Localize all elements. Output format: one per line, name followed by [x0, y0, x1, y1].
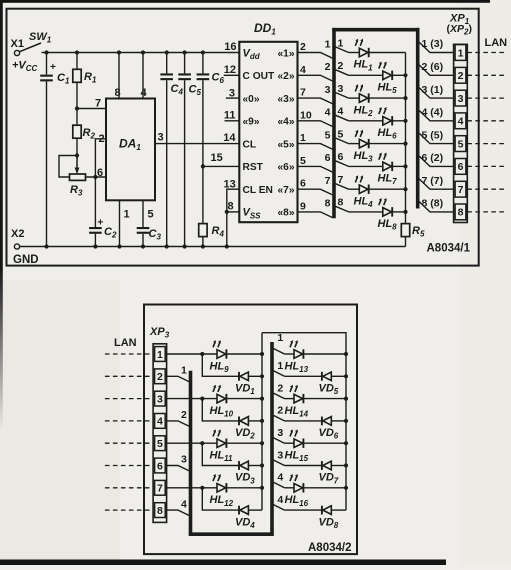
group bus left — [332, 28, 336, 218]
svg-text:6: 6 — [325, 152, 331, 164]
LED HL6 — [349, 120, 383, 122]
svg-text:4: 4 — [277, 494, 283, 506]
svg-text:7: 7 — [338, 174, 344, 186]
svg-text:7: 7 — [95, 98, 101, 110]
svg-text:2: 2 — [338, 60, 344, 72]
svg-text:4: 4 — [458, 116, 464, 128]
XP1 pin 6 — [455, 159, 466, 175]
capacitor C6 — [201, 50, 205, 54]
wire DD1 pin 7 to bus, line 3 — [298, 98, 333, 104]
diode VD2 — [202, 399, 239, 421]
wire bus line 3 exit b-row 6 — [273, 460, 284, 466]
svg-text:«0»: «0» — [243, 94, 260, 105]
wire line 5 (5) to XP1 pin — [419, 133, 453, 143]
wire XP3 pin 5 row — [167, 442, 217, 444]
svg-text:8: 8 — [338, 197, 344, 209]
svg-text:1: 1 — [124, 209, 130, 221]
svg-text:«2»: «2» — [278, 71, 295, 82]
svg-text:5: 5 — [458, 138, 464, 150]
svg-text:2: 2 — [325, 61, 331, 73]
LED HL10 — [217, 394, 226, 403]
wire bus line 3 to LED row — [335, 93, 348, 99]
capacitor C4 — [165, 50, 169, 54]
LED HL3 — [349, 143, 360, 145]
capacitor C1 — [46, 53, 48, 75]
svg-text:1: 1 — [325, 38, 331, 50]
LAN dashed line 5 — [467, 143, 504, 145]
svg-text:7: 7 — [325, 175, 331, 187]
wire LED common cathode — [405, 53, 407, 224]
svg-text:3: 3 — [458, 93, 464, 105]
svg-text:8: 8 — [325, 198, 331, 210]
diode VD7 — [285, 465, 322, 467]
resistor R1 — [75, 50, 79, 54]
diode VD1 — [202, 354, 239, 376]
wire bus line 4 exit b-row 8 — [273, 505, 284, 511]
XP1 pin 7 — [455, 181, 466, 197]
LAN dashed line b5 — [105, 442, 153, 444]
svg-text:16: 16 — [224, 41, 236, 53]
LED HL4 — [349, 188, 360, 190]
svg-text:2: 2 — [181, 409, 187, 421]
svg-text:«9»: «9» — [243, 117, 260, 128]
LAN dashed line b3 — [105, 398, 153, 400]
XP3 pin 4 — [155, 414, 166, 429]
terminal X2 — [14, 244, 19, 249]
svg-text:(XP2): (XP2) — [447, 23, 472, 36]
wire bus line 2 exit b-row 3 — [273, 393, 284, 399]
page edge bar bottom — [0, 560, 446, 566]
svg-text:«3»: «3» — [278, 94, 295, 105]
wire DD1 pin 2 to bus, line 1 — [298, 53, 333, 59]
wire bus line 1 exit b-row 2 — [273, 371, 284, 377]
svg-text:«1»: «1» — [278, 48, 295, 59]
wire XP3 pin 7 row — [167, 487, 217, 489]
svg-text:GND: GND — [13, 254, 39, 266]
wire XP3 pin 2 to bus, line 1 — [167, 376, 190, 381]
svg-text:6: 6 — [338, 151, 344, 163]
resistor R5 — [401, 224, 409, 237]
LAN dashed line b2 — [105, 375, 153, 377]
LAN dashed line b1 — [105, 353, 153, 355]
svg-text:3: 3 — [158, 132, 164, 144]
svg-text:1: 1 — [338, 37, 344, 49]
svg-text:«4»: «4» — [278, 117, 295, 128]
diode VD6 — [285, 420, 322, 422]
group bus b-left — [189, 371, 193, 534]
wire DD1 pin 10 to bus, line 4 — [298, 121, 333, 127]
capacitor C2 — [94, 177, 96, 227]
page edge bar top — [0, 0, 490, 3]
svg-text:3 (1): 3 (1) — [422, 84, 444, 96]
wire R5 to GND rail — [405, 237, 407, 247]
svg-text:8: 8 — [157, 505, 163, 517]
wire line 4 (4) to XP1 pin — [419, 111, 453, 121]
svg-text:1: 1 — [300, 132, 306, 144]
XP3 pin 6 — [155, 458, 166, 473]
wire DD1 pin 1 to bus, line 5 — [298, 144, 333, 150]
svg-text:1: 1 — [458, 47, 464, 59]
LAN dashed line b4 — [105, 420, 153, 422]
connector XP3 — [153, 344, 167, 523]
wire common bypass top — [262, 333, 346, 510]
XP3 pin 1 — [155, 347, 166, 362]
svg-text:9: 9 — [300, 200, 306, 212]
XP3 pin 7 — [155, 480, 166, 495]
wire XP3 pin 3 row — [167, 398, 217, 400]
LAN dashed line 8 — [467, 211, 504, 213]
LAN dashed line 7 — [467, 188, 504, 190]
wire line 3 (1) to XP1 pin — [419, 88, 453, 98]
svg-text:2: 2 — [157, 371, 163, 383]
IC DD1 — [239, 42, 297, 222]
svg-text:4: 4 — [300, 64, 306, 76]
trimmer R3 — [59, 156, 77, 178]
LED HL9 — [217, 350, 226, 359]
diode VD5 — [285, 375, 322, 377]
LAN dashed line 4 — [467, 120, 504, 122]
LED HL1 — [349, 52, 360, 54]
svg-text:3: 3 — [338, 83, 344, 95]
wire common left column — [261, 333, 263, 510]
svg-text:7: 7 — [157, 483, 163, 495]
svg-text:4: 4 — [325, 107, 331, 119]
wire bus line 7 to LED row — [335, 184, 348, 190]
svg-text:1: 1 — [157, 349, 163, 361]
LAN dashed line 3 — [467, 97, 504, 99]
svg-text:6: 6 — [97, 167, 103, 179]
svg-text:4: 4 — [141, 87, 148, 99]
LED HL15 — [285, 442, 295, 444]
LED HL11 — [217, 439, 226, 448]
svg-text:2 (6): 2 (6) — [422, 61, 444, 73]
page edge bar left — [0, 0, 1, 1]
wire line 7 (7) to XP1 pin — [419, 179, 453, 189]
group bus top — [332, 28, 419, 32]
wire RST pin 15 — [201, 164, 205, 168]
svg-text:4: 4 — [338, 106, 344, 118]
svg-text:7: 7 — [458, 184, 464, 196]
svg-text:6: 6 — [458, 161, 464, 173]
wire XP3 pin 6 to bus, line 3 — [167, 466, 190, 471]
svg-text:CL EN: CL EN — [243, 185, 273, 196]
wire XP3 pin 4 to bus, line 2 — [167, 421, 190, 426]
svg-text:3: 3 — [277, 427, 283, 439]
svg-text:2: 2 — [277, 405, 283, 417]
diode VD4 — [202, 488, 239, 510]
svg-text:5: 5 — [325, 129, 331, 141]
LED HL2 — [349, 97, 360, 99]
svg-text:1: 1 — [277, 360, 283, 372]
XP1 pin 3 — [455, 90, 466, 106]
XP1 pin 4 — [455, 113, 466, 129]
LED HL12 — [217, 484, 226, 493]
wire line 1 (3) to XP1 pin — [419, 42, 453, 52]
svg-text:5 (5): 5 (5) — [422, 129, 444, 141]
resistor R2 — [73, 125, 81, 138]
wire line 8 (8) to XP1 pin — [419, 202, 453, 212]
svg-text:1: 1 — [277, 332, 283, 344]
group bus right — [416, 28, 420, 209]
svg-text:7 (7): 7 (7) — [422, 175, 444, 187]
wire bus line 4 to LED row — [335, 115, 348, 121]
svg-text:LAN: LAN — [485, 37, 508, 49]
wire bus line 2 exit b-row 4 — [273, 415, 284, 421]
svg-text:X1: X1 — [11, 38, 24, 50]
LED HL16 — [285, 487, 295, 489]
LAN dashed line 2 — [467, 74, 504, 76]
svg-text:5: 5 — [157, 438, 163, 450]
svg-text:C OUT: C OUT — [243, 71, 275, 82]
svg-text:5: 5 — [148, 209, 154, 221]
wire Vcc rail — [42, 52, 240, 54]
switch SW1 — [19, 43, 41, 52]
svg-text:2: 2 — [300, 41, 306, 53]
XP3 pin 8 — [155, 503, 166, 518]
wire bus line 1 exit b-row 1 — [273, 349, 284, 355]
XP3 pin 3 — [155, 391, 166, 406]
wire XP3 pin 8 to bus, line 4 — [167, 510, 190, 515]
LED HL14 — [285, 398, 295, 400]
wire line 6 (2) to XP1 pin — [419, 156, 453, 166]
wire R1-R2 — [76, 82, 78, 125]
svg-text:RST: RST — [243, 162, 264, 173]
svg-text:1 (3): 1 (3) — [422, 38, 444, 50]
wire bus line 3 exit b-row 5 — [273, 438, 284, 444]
connector XP1 (XP2) — [454, 44, 468, 222]
svg-text:2: 2 — [458, 70, 464, 82]
LAN dashed line 1 — [467, 52, 504, 54]
svg-text:CL: CL — [243, 139, 257, 150]
svg-text:11: 11 — [224, 109, 236, 121]
XP1 pin 2 — [455, 67, 466, 83]
wire bus line 4 exit b-row 7 — [273, 482, 284, 488]
svg-text:7: 7 — [300, 87, 306, 99]
svg-text:3: 3 — [181, 454, 187, 466]
LED HL13 — [285, 353, 295, 355]
svg-text:+: + — [98, 218, 104, 229]
terminal X1 — [14, 50, 19, 55]
group bus b-bottom — [189, 532, 274, 536]
svg-text:5: 5 — [338, 128, 344, 140]
svg-text:4 (4): 4 (4) — [422, 107, 444, 119]
diode VD3 — [202, 443, 239, 465]
svg-text:8: 8 — [458, 207, 464, 219]
svg-text:1: 1 — [181, 365, 187, 377]
voltage regulator DA1 — [106, 99, 155, 201]
wire DD1 pin 6 to bus, line 7 — [298, 189, 333, 195]
LED HL8 — [349, 211, 383, 213]
svg-text:3: 3 — [157, 393, 163, 405]
wire GND rail — [20, 246, 406, 248]
wire bus line 5 to LED row — [335, 138, 348, 144]
wire R3 to pin 6 — [86, 176, 107, 178]
XP1 pin 1 — [455, 45, 466, 61]
LAN dashed line 6 — [467, 165, 504, 167]
svg-text:6 (2): 6 (2) — [422, 152, 444, 164]
LED HL7 — [349, 165, 383, 167]
XP3 pin 5 — [155, 436, 166, 451]
svg-text:6: 6 — [157, 460, 163, 472]
svg-text:14: 14 — [223, 132, 236, 144]
LED HL5 — [349, 74, 383, 76]
svg-text:15: 15 — [211, 152, 223, 164]
resistor R4 — [202, 166, 204, 223]
XP1 pin 8 — [455, 204, 466, 220]
wire XP3 pin 1 row — [167, 353, 217, 355]
XP1 pin 5 — [455, 136, 466, 152]
svg-text:«8»: «8» — [278, 208, 295, 219]
svg-text:X2: X2 — [11, 228, 24, 240]
svg-text:4: 4 — [277, 472, 283, 484]
svg-text:3: 3 — [325, 84, 331, 96]
wire DD1 pin 9 to bus, line 8 — [298, 212, 333, 218]
svg-text:+: + — [50, 62, 56, 73]
LAN dashed line b7 — [105, 487, 153, 489]
svg-text:2: 2 — [277, 382, 283, 394]
XP3 pin 2 — [155, 369, 166, 384]
wire DD1 pin 5 to bus, line 6 — [298, 166, 333, 172]
svg-text:«6»: «6» — [278, 162, 295, 173]
group bus b-right — [270, 342, 274, 536]
svg-text:A8034/1: A8034/1 — [427, 243, 471, 255]
svg-text:3: 3 — [277, 449, 283, 461]
svg-text:8 (8): 8 (8) — [422, 198, 444, 210]
diode VD8 — [285, 509, 322, 511]
svg-text:6: 6 — [300, 178, 306, 190]
svg-text:4: 4 — [157, 416, 163, 428]
svg-text:LAN: LAN — [114, 337, 137, 349]
outer box A8034/2 — [144, 305, 357, 555]
outer box A8034/1 — [7, 9, 479, 266]
wire DD1 pin 4 to bus, line 2 — [298, 75, 333, 81]
wire line 2 (6) to XP1 pin — [419, 65, 453, 75]
capacitor C3 — [137, 227, 150, 229]
capacitor C5 — [183, 50, 187, 54]
svg-text:A8034/2: A8034/2 — [308, 542, 351, 554]
LAN dashed line b8 — [105, 509, 153, 511]
svg-text:5: 5 — [300, 155, 306, 167]
svg-text:«7»: «7» — [278, 185, 295, 196]
wire bus line 8 to LED row — [335, 206, 348, 212]
LAN dashed line b6 — [105, 465, 153, 467]
svg-text:4: 4 — [181, 498, 187, 510]
wire R2 to junction — [76, 138, 78, 155]
svg-text:12: 12 — [224, 64, 236, 76]
wire bus line 1 to LED row — [335, 47, 348, 53]
wire bus line 2 to LED row — [335, 70, 348, 76]
svg-text:10: 10 — [300, 109, 312, 121]
svg-text:«5»: «5» — [278, 139, 295, 150]
svg-text:8: 8 — [115, 87, 121, 99]
wire bus line 6 to LED row — [335, 161, 348, 167]
